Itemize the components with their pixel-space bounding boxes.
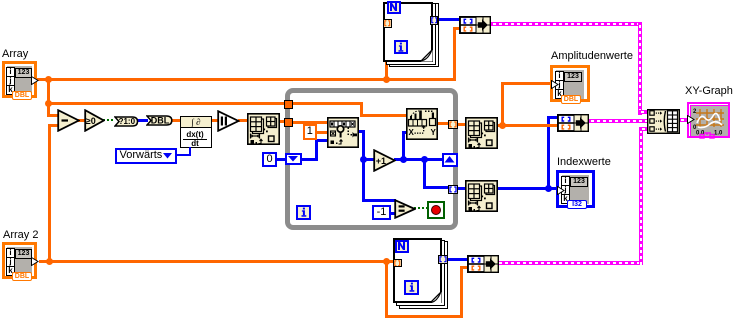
- for loop 1 page curl: [421, 50, 433, 62]
- indicator terminal Amplitudenwerte (DBL array): [550, 65, 590, 102]
- for loop 1 right tunnel (blue []): [430, 16, 439, 25]
- control terminal Array (DBL array): [2, 61, 37, 98]
- Vorwaerts enum dropdown: [115, 148, 177, 164]
- tunnel T2 (orange square on left border): [284, 118, 293, 127]
- indicator terminal Indexwerte (I32 array): [556, 170, 595, 208]
- wire elbow into subtract top input: [47, 114, 59, 117]
- absolute value node: [217, 110, 240, 132]
- select ?1:0 node: [114, 116, 139, 127]
- search 1D array node: [327, 117, 359, 148]
- label Indexwerte: [557, 156, 611, 169]
- junction dot tunnelR2 branch: [421, 156, 428, 163]
- wire elbow into threshold index input: [402, 131, 408, 134]
- wire +1 out to right shift register: [394, 158, 442, 161]
- wire cluster vertical up to build-array bottom: [639, 127, 643, 265]
- wire Array2 long run to For-loop-2 tunnel: [39, 260, 394, 263]
- subtract node: [57, 109, 80, 132]
- svg-text:X: X: [409, 128, 415, 137]
- stop button: [427, 201, 445, 219]
- wire cluster bundle3 out (magenta dashed): [496, 261, 643, 265]
- wire For2 i to frame: [418, 285, 425, 287]
- wire up right side to bundle3: [460, 266, 463, 318]
- for loop 2 frame: [393, 238, 442, 303]
- wire junction to +1: [362, 158, 375, 161]
- wire tunnel R1 to subset node1: [457, 123, 466, 126]
- tunnel T1 (orange square on left border): [284, 100, 293, 109]
- svg-text:DBL: DBL: [151, 116, 170, 126]
- bundle node 3 (bottom): [467, 255, 499, 273]
- wire branch up to threshold index input: [402, 131, 405, 161]
- junction dot B on Array wire: [45, 100, 52, 107]
- for loop 2 count terminal N: [395, 240, 409, 254]
- wire cluster bundle1 out (magenta dashed): [490, 22, 642, 26]
- build array node: [647, 109, 680, 134]
- wire derivative to abs: [211, 119, 219, 122]
- svg-text:Y: Y: [431, 128, 437, 137]
- label Amplitudenwerte: [551, 50, 633, 63]
- wire For1 i to frame: [407, 45, 414, 47]
- wire vertical from junction A down to subtract top input: [47, 78, 50, 117]
- for loop 1 frame: [383, 2, 433, 62]
- wire elbow into bundle2 top input: [547, 116, 557, 119]
- wire Array-out top run to bundle1: [37, 78, 456, 81]
- wire elbow into bundle3 lower input: [460, 266, 469, 269]
- increment +1 node: [373, 149, 396, 172]
- junction dot threshold branch: [400, 156, 407, 163]
- wire search out stub: [358, 130, 365, 133]
- wire abs to sort-node: [238, 119, 248, 122]
- wire up elbow: [315, 139, 318, 158]
- svg-text:+1: +1: [376, 156, 386, 166]
- wire ?1:0 to DBL (blue): [136, 119, 148, 122]
- wire sort-node to tunnel T2: [278, 120, 286, 123]
- wire branch down to tunnel R2: [423, 158, 426, 189]
- wire vertical up to bundle2 top input: [547, 116, 550, 189]
- junction dot For2 tunnel: [383, 258, 390, 265]
- wire For2 vertical: [423, 258, 425, 287]
- junction dot A on Array wire: [45, 76, 52, 83]
- junction dot Amplitudenwerte branch: [499, 122, 506, 129]
- wire elbow to tunnel R2: [423, 186, 449, 189]
- junction dot search-out: [360, 156, 367, 163]
- wire node1 out to bundle2 lower input: [496, 124, 557, 127]
- wire For1 tunnel to bundle1 top input: [437, 18, 460, 21]
- wire DBL to derivative: [171, 119, 181, 122]
- wire elbow into bundle1 lower input: [453, 27, 461, 30]
- svg-text:?1:0: ?1:0: [118, 117, 135, 126]
- threshold 1D array node: [406, 108, 438, 140]
- wire subtract out to geq0: [78, 119, 86, 122]
- shift register left (down arrow): [285, 153, 302, 165]
- constant 0: [262, 152, 277, 167]
- wire search out vertical down to =: [362, 130, 365, 202]
- wire jog right into threshold node: [360, 114, 407, 117]
- for loop 2 stacked pages: [399, 241, 448, 309]
- while loop border: [285, 88, 458, 230]
- array subset node2 (after loop, index): [465, 179, 498, 213]
- for loop 2 right tunnel (blue []): [438, 255, 448, 264]
- bundle node 2 (middle): [557, 114, 589, 132]
- label XY-Graph: [685, 85, 733, 98]
- for loop 2 left tunnel (orange []): [393, 259, 402, 268]
- to-double DBL node: [146, 115, 173, 126]
- wire vertical up to Amplitudenwerte: [501, 83, 504, 126]
- wire cluster bundle2 out to build-array middle input: [588, 119, 648, 123]
- wire cluster elbow into build-array top input: [638, 110, 648, 114]
- greater-equal-zero node: [84, 109, 105, 132]
- iteration terminal i (while loop): [296, 205, 311, 220]
- wire cluster elbow into build-array bottom input: [639, 127, 648, 131]
- wire tunnel T2 to search node: [292, 121, 328, 124]
- tunnel R2 (blue indexing tunnel on right border): [448, 185, 458, 194]
- wire threshold out to tunnel R1: [437, 122, 448, 125]
- wire vertical up to bundle1 lower input: [453, 27, 456, 82]
- wire junction B right to while-loop tunnel T1: [47, 102, 286, 105]
- wire elbow into subtract bottom input: [48, 124, 59, 127]
- junction dot For1 drop: [383, 76, 390, 83]
- label Array 2: [3, 229, 38, 242]
- derivative dx(t)/dt node: [180, 116, 212, 148]
- for loop 1 iteration terminal i: [394, 40, 408, 54]
- wire cluster build-array out to XY-Graph: [678, 118, 689, 122]
- wire node2 out to Indexwerte: [496, 187, 557, 190]
- tunnel R1 (orange indexing tunnel on right border): [448, 120, 458, 129]
- for loop 2 page curl: [430, 292, 442, 304]
- wire For2 junction down: [385, 260, 388, 318]
- wire dropdown to derivative: [189, 147, 191, 155]
- wire boolean equals to stop (green dotted): [414, 207, 428, 209]
- wire into equals top input: [362, 199, 396, 202]
- constant -1: [372, 205, 391, 220]
- label Array: [2, 48, 28, 61]
- equals node: [394, 199, 416, 219]
- wire boolean geq0 to selector (green dotted): [103, 119, 115, 121]
- wire bottom run under For2: [385, 315, 463, 318]
- wire elbow into Amplitudenwerte: [501, 82, 553, 85]
- wire const-0 to left shift register: [277, 158, 286, 161]
- constant 1: [303, 124, 317, 140]
- for loop 1 left tunnel (orange []): [383, 19, 392, 28]
- array subset node1 (after loop, amplitude): [465, 116, 498, 150]
- wire vertical Array2 up to subtract bottom input: [48, 124, 51, 263]
- wire shift register to search start-index: [301, 158, 318, 161]
- wire For2 to right tunnel: [423, 258, 439, 260]
- wire For1 tunnel drop vertical: [385, 27, 388, 81]
- wire const-minus1 to equals: [390, 212, 396, 215]
- for loop 1 stacked pages: [389, 3, 439, 67]
- wire tunnel R2 to subset node2: [457, 187, 466, 190]
- wire tunnel T1 into loop: [292, 102, 363, 105]
- indicator terminal XY-Graph: [687, 102, 730, 138]
- wire node1-out overdraw at blue crossing: [544, 124, 557, 127]
- for loop 2 iteration terminal i: [404, 280, 419, 295]
- bundle node 1 (top): [459, 16, 491, 34]
- wire For2 tunnel to bundle3 top input: [447, 258, 469, 261]
- for loop 1 count terminal N: [387, 1, 401, 14]
- sort 1D array node: [247, 113, 280, 145]
- shift register right (up arrow): [442, 153, 458, 167]
- junction dot Indexwerte branch: [545, 185, 552, 192]
- wire For1 to right tunnel: [412, 19, 431, 21]
- wire jog down: [360, 102, 363, 117]
- svg-text:≥0: ≥0: [85, 116, 95, 126]
- wire into search bottom input: [315, 139, 328, 142]
- wire const-1 to search node: [316, 131, 328, 134]
- junction dot Array2: [46, 258, 53, 265]
- control terminal Array 2 (DBL array): [2, 242, 37, 279]
- wire For1 vertical: [412, 19, 414, 47]
- wire cluster vertical down to build-array top: [638, 22, 642, 115]
